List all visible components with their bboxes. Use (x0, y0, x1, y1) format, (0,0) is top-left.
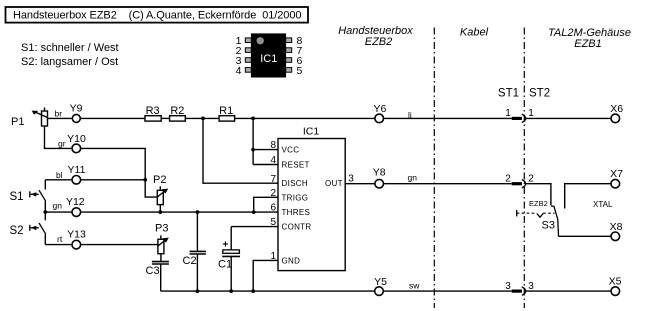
node Y13 (67, 229, 86, 249)
svg-text:gr: gr (58, 139, 66, 149)
wire OUT to Y8 (345, 183, 375, 185)
node X5 (609, 276, 622, 296)
svg-text:+: + (223, 240, 229, 251)
svg-text:Y5: Y5 (374, 276, 387, 288)
svg-text:ST1: ST1 (498, 88, 519, 100)
svg-text:4: 4 (270, 155, 276, 166)
pin 8 VCC wire (253, 149, 278, 151)
svg-text:XTAL: XTAL (593, 200, 613, 209)
capacitor C2 (190, 212, 206, 291)
junction C1 bottom (229, 289, 233, 293)
actuator dashed link (517, 210, 555, 217)
junction VCC/RESET (251, 148, 255, 152)
wire S3 to X8 (559, 235, 612, 237)
svg-text:X8: X8 (610, 221, 623, 233)
wire R3 to R2 (161, 117, 169, 119)
junction P2 bottom (158, 210, 162, 214)
svg-text:li: li (408, 110, 412, 120)
wire R2 to R1 (185, 117, 219, 119)
svg-text:IC1: IC1 (260, 53, 277, 65)
section header TAL2M-Gehaeuse EZB1 (548, 27, 631, 50)
svg-text:EZB1: EZB1 (574, 38, 602, 50)
op IC1 logic box (278, 126, 345, 271)
svg-text:R2: R2 (170, 105, 184, 117)
svg-text:2: 2 (270, 188, 276, 199)
svg-text:Y8: Y8 (373, 166, 386, 178)
svg-text:Handsteuerbox: Handsteuerbox (338, 25, 413, 37)
svg-text:1: 1 (505, 108, 511, 119)
connector ST1/ST2 pin 3 (505, 281, 534, 295)
wire sw: Y5 to connector pin 3 (383, 290, 512, 292)
svg-text:X7: X7 (610, 168, 623, 180)
wire R1 to Y6 (235, 117, 376, 119)
wire CONTR (231, 226, 278, 228)
wire connector to X5 (526, 290, 611, 292)
svg-text:C3: C3 (146, 265, 160, 277)
svg-text:sw: sw (409, 280, 420, 290)
switch S1 (30, 180, 46, 212)
IC package pictorial IC1 (236, 33, 303, 77)
svg-text:EZB2: EZB2 (365, 36, 393, 48)
svg-text:R3: R3 (146, 105, 160, 117)
potentiometer P2 (157, 186, 168, 212)
svg-text:ST2: ST2 (529, 88, 550, 100)
svg-text:P1: P1 (11, 116, 24, 128)
title box (6, 7, 309, 23)
wire bl rail: S1 top to Y11 (45, 179, 72, 181)
junction C2 bottom (196, 289, 200, 293)
capacitor C3 (152, 262, 169, 292)
svg-text:Y12: Y12 (66, 196, 85, 208)
potentiometer P1 (32, 108, 48, 127)
junction S1/S2 on gn rail (43, 210, 47, 214)
resistor R1 (219, 116, 235, 121)
junction C2 top (196, 210, 200, 214)
svg-text:R1: R1 (219, 105, 233, 117)
svg-text:gn: gn (408, 172, 418, 182)
svg-text:X5: X5 (609, 276, 622, 288)
connector ST1/ST2 pin 2 (505, 174, 534, 188)
potentiometer P3 (158, 235, 169, 261)
resistor R3 (145, 116, 161, 121)
svg-text:P2: P2 (153, 174, 166, 186)
wire gr rail: Y10 to corner, down to bl junction, down to P2 (80, 148, 157, 197)
wire bl rail: Y11 to gr corner (80, 179, 145, 181)
svg-text:6: 6 (270, 203, 276, 214)
capacitor C1 (electrolytic) (222, 227, 240, 292)
wire X7 branch (565, 184, 612, 209)
svg-text:Y13: Y13 (67, 229, 86, 241)
svg-text:Kabel: Kabel (460, 27, 489, 39)
svg-text:S1: schneller / West: S1: schneller / West (21, 42, 119, 54)
wire br rail: P1 wiper to Y9 (48, 117, 73, 119)
wire gn rail: Y12 to IC THRES (80, 211, 278, 213)
wire VCC branch vertical (252, 118, 254, 164)
svg-text:CONTR: CONTR (282, 223, 312, 232)
svg-text:4: 4 (236, 65, 242, 77)
svg-text:Y11: Y11 (68, 164, 86, 176)
node Y12 (66, 196, 85, 216)
svg-text:3: 3 (505, 281, 511, 292)
boundary dash-dot line Handsteuerbox/Kabel (433, 28, 435, 309)
svg-text:7: 7 (270, 174, 276, 185)
svg-text:S2: S2 (10, 225, 24, 237)
svg-text:Y10: Y10 (67, 133, 86, 145)
switch S3 (551, 206, 559, 236)
svg-text:gn: gn (53, 200, 63, 210)
svg-text:S3: S3 (542, 220, 555, 232)
svg-text:TRIGG: TRIGG (282, 193, 309, 202)
wire DISCH branch (203, 118, 278, 183)
svg-text:Y6: Y6 (373, 103, 386, 115)
wire TRIGG bracket (254, 197, 278, 212)
switch S2 (30, 212, 46, 245)
connector ST1/ST2 pin 1 (505, 108, 534, 122)
node X7 (610, 168, 623, 188)
svg-text:S1: S1 (10, 191, 24, 203)
svg-text:TAL2M-Gehäuse: TAL2M-Gehäuse (548, 27, 631, 39)
svg-text:RESET: RESET (282, 161, 310, 170)
junction at VCC branch (251, 117, 255, 121)
wire br rail: Y9 to R3 (80, 117, 145, 119)
section header Handsteuerbox EZB2 (338, 25, 413, 48)
wire connector to X6 (526, 117, 611, 119)
svg-text:3: 3 (528, 281, 534, 292)
node Y6 (373, 103, 386, 123)
svg-text:C2: C2 (183, 255, 197, 267)
wire gn rail: junction to Y12 (45, 211, 72, 213)
svg-text:THRES: THRES (282, 208, 311, 217)
resistor R2 (170, 116, 186, 121)
svg-text:Y9: Y9 (70, 102, 83, 114)
svg-text:rt: rt (57, 234, 63, 244)
junction TRIGG/THRES (252, 210, 256, 214)
svg-text:5: 5 (297, 65, 303, 77)
svg-text:2: 2 (528, 174, 534, 185)
svg-text:C1: C1 (218, 258, 232, 270)
wire li: Y6 to connector pin 1 (383, 117, 512, 119)
node Y5 (374, 276, 387, 296)
wire P1 bottom to gr rail (45, 126, 73, 148)
junction bl/gr (143, 178, 147, 182)
node Y9 (70, 102, 83, 122)
svg-text:EZB2: EZB2 (529, 199, 548, 208)
svg-text:IC1: IC1 (303, 126, 320, 138)
svg-text:3: 3 (348, 173, 354, 184)
junction at R2/R1 node (201, 117, 205, 121)
svg-text:8: 8 (270, 140, 276, 151)
svg-text:DISCH: DISCH (282, 179, 308, 188)
node Y8 (373, 166, 386, 188)
svg-text:P3: P3 (155, 222, 168, 234)
pin 4 RESET wire (253, 164, 278, 166)
wire bottom sw rail (161, 290, 376, 292)
svg-text:OUT: OUT (325, 179, 343, 188)
node X8 (610, 221, 623, 241)
wire gn: Y8 to connector pin 2 (383, 183, 512, 185)
svg-text:br: br (55, 109, 63, 119)
boundary dash-dot line Kabel/TAL2M (523, 28, 525, 309)
svg-text:Handsteuerbox EZB2 (C) A.Qu: Handsteuerbox EZB2 (C) A.Quante, Eckernf… (13, 9, 301, 21)
junction GND (251, 289, 255, 293)
svg-text:2: 2 (505, 174, 511, 185)
wire GND pin to bottom rail (253, 260, 278, 291)
node Y10 (67, 133, 86, 153)
svg-text:S2: langsamer / Ost: S2: langsamer / Ost (21, 56, 118, 68)
wire pin2 to S3 (526, 184, 551, 206)
svg-text:X6: X6 (610, 103, 623, 115)
node X6 (610, 103, 623, 123)
svg-text:bl: bl (56, 170, 63, 180)
svg-text:VCC: VCC (282, 146, 300, 155)
node Y11 (68, 164, 86, 184)
svg-text:GND: GND (282, 256, 301, 265)
svg-text:1: 1 (528, 108, 534, 119)
wire rt rail: S2 bottom to Y13 (45, 244, 72, 246)
wire rt rail: Y13 to P3 (80, 244, 158, 246)
